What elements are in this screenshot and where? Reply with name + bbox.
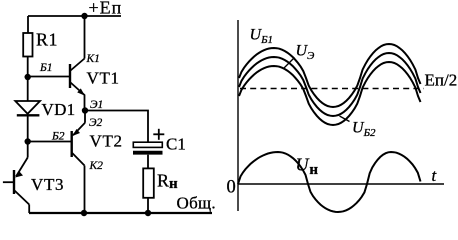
node VT2 collector junction: [81, 210, 87, 216]
wire top rail +Еп: [28, 15, 121, 17]
svg-text:UЭ: UЭ: [296, 43, 315, 63]
wire R1 top lead: [27, 16, 29, 33]
svg-text:VT1: VT1: [87, 69, 120, 88]
node Rн bottom junction: [145, 210, 151, 216]
wire base Б1: [28, 76, 70, 78]
wire R1 bottom lead: [27, 57, 29, 78]
transistor VT2: [28, 111, 85, 214]
capacitor C1: [133, 142, 163, 168]
svg-text:С1: С1: [166, 135, 186, 154]
wire output to C1: [85, 111, 148, 143]
transistor VT3: [3, 142, 29, 214]
node +Еп junction: [81, 13, 87, 19]
diode VD1: [15, 101, 40, 142]
curve U_Э: [239, 53, 421, 116]
svg-text:R1: R1: [36, 30, 58, 50]
wire bottom rail Общ: [29, 212, 212, 214]
dashed line Еп/2: [240, 88, 424, 90]
transistor VT1: [70, 16, 85, 110]
svg-text:0: 0: [227, 178, 236, 198]
pointer U_Б2: [340, 116, 350, 122]
svg-text:Э2: Э2: [89, 117, 103, 129]
svg-text:Э1: Э1: [90, 99, 103, 111]
wire Б1 node to VD1: [27, 77, 29, 101]
wire Rн bottom lead: [147, 198, 149, 213]
resistor R1: [23, 33, 32, 57]
curve U_Б2: [239, 62, 421, 125]
svg-text:UБ1: UБ1: [250, 27, 274, 47]
svg-text:Uн: Uн: [296, 155, 319, 179]
svg-text:VD1: VD1: [42, 100, 76, 119]
curve U_н: [238, 152, 421, 212]
node base junction Б1: [25, 74, 31, 80]
svg-text:К1: К1: [86, 53, 100, 65]
node emitter junction Э1: [82, 107, 88, 113]
svg-text:Б1: Б1: [39, 62, 53, 74]
chart y-axis: [237, 20, 239, 211]
svg-text:Еп/2: Еп/2: [425, 71, 458, 90]
node base junction Б2: [25, 138, 31, 144]
svg-text:VT2: VT2: [90, 132, 123, 151]
svg-text:+Еп: +Еп: [89, 0, 123, 18]
svg-text:t: t: [432, 166, 438, 185]
svg-text:К2: К2: [89, 160, 104, 172]
curve U_Б1: [239, 44, 421, 107]
resistor Rн: [143, 168, 154, 197]
svg-text:Б2: Б2: [51, 131, 65, 143]
svg-text:Общ.: Общ.: [177, 194, 216, 213]
svg-text:Rн: Rн: [157, 171, 178, 193]
capacitor C1 plus sign: [153, 129, 164, 140]
chart x-axis: [238, 183, 444, 185]
svg-text:VT3: VT3: [31, 175, 64, 194]
pointer U_Э: [284, 58, 295, 69]
svg-text:UБ2: UБ2: [352, 120, 376, 140]
